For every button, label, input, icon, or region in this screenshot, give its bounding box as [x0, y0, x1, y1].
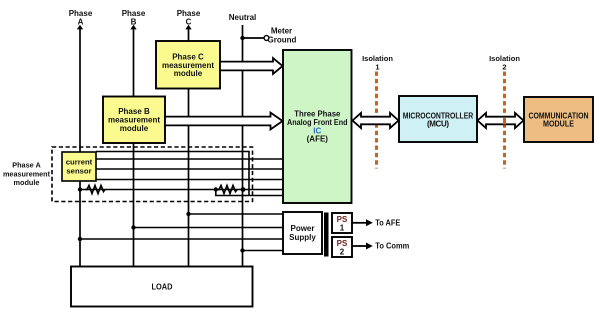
- svg-text:Neutral: Neutral: [229, 13, 257, 22]
- svg-text:Phase A: Phase A: [12, 160, 41, 169]
- svg-text:module: module: [120, 124, 149, 133]
- svg-text:MODULE: MODULE: [543, 120, 575, 129]
- svg-text:Supply: Supply: [289, 233, 316, 242]
- svg-text:1: 1: [340, 224, 345, 233]
- svg-text:module: module: [174, 69, 203, 78]
- svg-text:A: A: [78, 18, 84, 27]
- svg-text:module: module: [14, 178, 40, 187]
- svg-text:Ground: Ground: [268, 35, 297, 44]
- svg-text:Meter: Meter: [271, 27, 292, 36]
- svg-text:2: 2: [340, 248, 345, 257]
- svg-text:C: C: [186, 18, 192, 27]
- svg-text:measurement: measurement: [3, 169, 51, 178]
- svg-text:sensor: sensor: [66, 167, 91, 176]
- svg-text:To AFE: To AFE: [375, 219, 401, 228]
- svg-text:B: B: [131, 18, 137, 27]
- svg-text:(MCU): (MCU): [427, 120, 449, 129]
- svg-text:Power: Power: [290, 224, 314, 233]
- svg-text:1: 1: [375, 63, 379, 72]
- svg-text:To Comm: To Comm: [375, 241, 409, 250]
- svg-text:current: current: [66, 158, 93, 167]
- svg-text:(AFE): (AFE): [307, 134, 329, 143]
- svg-text:LOAD: LOAD: [152, 283, 173, 292]
- svg-text:2: 2: [502, 63, 506, 72]
